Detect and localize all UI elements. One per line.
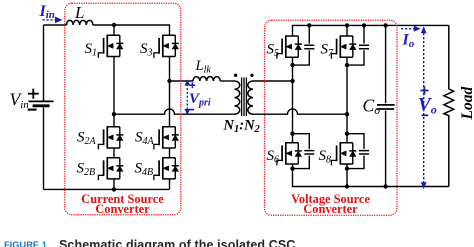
svg-text:Iin: Iin <box>39 3 55 21</box>
wire left leg S2B-bottom <box>113 179 115 190</box>
inductor Llk <box>193 77 220 81</box>
svg-text:N1:N2: N1:N2 <box>223 118 261 136</box>
transistor S2A <box>98 126 123 149</box>
node S8 cap bottom <box>345 166 349 170</box>
load resistor on right rail <box>444 25 454 186</box>
node S5 leg secondary tap <box>290 79 294 83</box>
transformer primary winding <box>235 81 240 114</box>
transistor S1 <box>98 35 123 58</box>
svg-text:Vo: Vo <box>418 95 437 117</box>
svg-text:S1: S1 <box>85 41 98 59</box>
capacitor snubber branch S5 <box>293 25 310 65</box>
svg-text:S8: S8 <box>319 148 332 166</box>
capacitor Co branch <box>385 25 387 186</box>
label Vpri minus <box>189 109 195 111</box>
capacitor plates S7 snubber <box>359 45 369 48</box>
transistor S4B <box>154 157 179 180</box>
wire left leg S1-S2A <box>113 57 115 127</box>
node S8 leg secondary tap <box>345 112 349 116</box>
node S7 source cap return <box>345 63 349 67</box>
transistor S6 <box>277 142 302 165</box>
current source converter dashed box <box>65 3 181 215</box>
node S6 cap top <box>290 132 294 136</box>
capacitor snubber branch S8 <box>347 134 364 169</box>
wire left leg S2A-S2B <box>113 148 115 158</box>
label battery plus <box>28 89 39 99</box>
node vsc top Co <box>383 23 387 27</box>
svg-text:Schematic diagram of the isola: Schematic diagram of the isolated CSC <box>59 238 295 247</box>
svg-text:S5: S5 <box>267 42 280 60</box>
transformer core <box>242 78 247 117</box>
svg-text:L: L <box>74 3 84 22</box>
wire csc bottom <box>44 188 170 190</box>
svg-text:Llk: Llk <box>195 58 212 76</box>
node top wire / S1 drain <box>112 23 116 27</box>
svg-text:Load: Load <box>459 87 474 121</box>
label Vo minus <box>422 114 429 116</box>
transistor S2B <box>98 157 123 180</box>
capacitor snubber branch S6 <box>293 134 310 169</box>
wire secondary top <box>253 80 293 82</box>
wire S1 drain stub <box>113 25 115 35</box>
node vsc top S5 cap <box>307 23 311 27</box>
transformer secondary winding <box>248 81 253 114</box>
wire right leg S4B-bottom <box>169 179 171 190</box>
arrow Iin dashed blue <box>43 17 63 24</box>
arrow Vpri measurement dashed blue <box>185 79 191 115</box>
wire S7 drain stub <box>346 25 348 36</box>
capacitor plates S8 snubber <box>359 151 369 154</box>
node vsc bottom S8 <box>345 184 349 188</box>
svg-text:FIGURE 1: FIGURE 1 <box>4 240 47 247</box>
transistor S7 <box>331 35 356 58</box>
wire top left rail to L <box>44 24 67 26</box>
svg-text:Io: Io <box>402 32 415 51</box>
node S6 cap bottom <box>290 166 294 170</box>
node S5 source cap return <box>290 63 294 67</box>
wire S6 source to vsc bottom <box>293 164 449 187</box>
capacitor plates S6 snubber <box>304 151 314 154</box>
svg-text:S2B: S2B <box>77 161 96 179</box>
capacitor Co plates <box>377 104 395 106</box>
svg-text:Vin: Vin <box>10 90 30 112</box>
node S8 cap top <box>345 132 349 136</box>
node left leg midpoint <box>112 112 116 116</box>
svg-text:S7: S7 <box>321 42 335 60</box>
label battery minus <box>28 109 37 111</box>
capacitor plates S5 snubber <box>304 45 314 48</box>
node S2B source / bottom wire <box>112 187 116 191</box>
transistor S4A <box>154 126 179 149</box>
wire left rail <box>43 25 45 101</box>
wire primary bottom with hop over right leg <box>114 109 235 114</box>
wire Llk to primary <box>220 80 234 82</box>
transistor S5 <box>277 35 302 58</box>
svg-text:Vpri: Vpri <box>189 91 211 109</box>
wire right leg S4A-S4B <box>169 148 171 158</box>
svg-text:S2A: S2A <box>77 130 97 148</box>
arrow Io dashed blue <box>401 26 421 32</box>
node vsc top S7 cap <box>362 23 366 27</box>
wire S7-S8 leg <box>346 57 348 143</box>
label Vpri plus <box>190 82 196 88</box>
node primary polarity dot <box>234 74 237 77</box>
wire S8 source to bottom <box>346 164 348 187</box>
wire left rail lower <box>43 107 45 189</box>
wire S5-S6 leg <box>292 57 294 143</box>
svg-text:Converter: Converter <box>303 202 358 216</box>
node right leg midpoint <box>167 79 171 83</box>
svg-text:Co: Co <box>363 96 381 118</box>
battery Vin plates <box>29 100 54 102</box>
capacitor snubber branch S7 <box>347 25 364 65</box>
wire right leg S3-S4A <box>169 57 171 127</box>
arrow Vo measurement dashed blue <box>421 26 427 189</box>
svg-text:S6: S6 <box>267 148 280 166</box>
svg-text:S4A: S4A <box>135 130 155 148</box>
svg-text:S4B: S4B <box>135 161 154 179</box>
label Vo plus <box>420 86 428 94</box>
svg-text:Converter: Converter <box>95 202 150 216</box>
wire Llk lead <box>170 80 194 82</box>
node secondary polarity dot <box>250 74 253 77</box>
voltage source converter dashed box <box>265 20 398 215</box>
wire secondary bottom with hop over S5 leg <box>253 109 347 114</box>
transistor S8 <box>331 142 356 165</box>
svg-text:S3: S3 <box>140 41 153 59</box>
node vsc bottom Co <box>383 184 387 188</box>
wire S5 drain to vsc top wire <box>293 25 449 36</box>
wire L to S3 drain <box>93 25 170 35</box>
inductor L <box>67 20 93 25</box>
transistor S3 <box>154 35 179 58</box>
node vsc top S7 drain <box>345 23 349 27</box>
